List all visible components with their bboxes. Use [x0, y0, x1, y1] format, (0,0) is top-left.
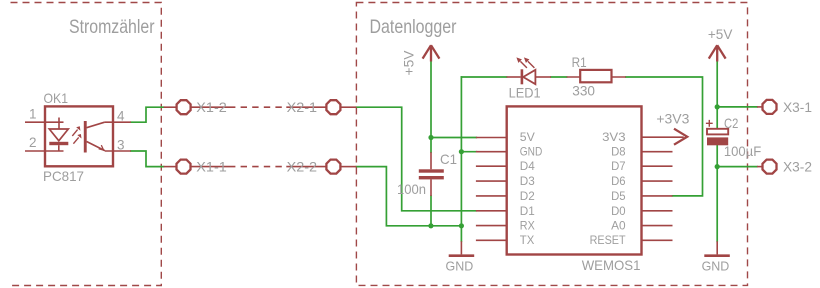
svg-text:R1: R1	[572, 54, 587, 70]
svg-text:100µF: 100µF	[724, 143, 761, 159]
svg-text:D2: D2	[520, 189, 535, 203]
svg-text:RESET: RESET	[590, 233, 626, 247]
svg-text:3: 3	[117, 138, 125, 153]
svg-text:1: 1	[29, 106, 37, 121]
svg-text:2: 2	[29, 135, 37, 150]
svg-text:D8: D8	[611, 145, 626, 159]
svg-text:Datenlogger: Datenlogger	[370, 16, 457, 38]
svg-text:C2: C2	[724, 115, 738, 131]
svg-text:LED1: LED1	[509, 85, 541, 101]
svg-text:Stromzähler: Stromzähler	[69, 16, 155, 38]
svg-text:5V: 5V	[520, 130, 536, 144]
svg-text:D7: D7	[611, 159, 626, 173]
svg-text:GND: GND	[520, 145, 543, 159]
svg-text:D4: D4	[520, 159, 535, 173]
svg-text:X3-2: X3-2	[783, 158, 812, 174]
svg-text:X3-1: X3-1	[783, 99, 812, 115]
svg-text:D1: D1	[520, 204, 535, 218]
svg-text:GND: GND	[446, 258, 474, 273]
svg-text:+5V: +5V	[402, 51, 417, 76]
svg-text:RX: RX	[520, 219, 535, 233]
svg-text:A0: A0	[611, 219, 626, 233]
svg-text:X2-1: X2-1	[287, 99, 318, 115]
svg-text:X1-1: X1-1	[196, 159, 227, 175]
svg-text:100n: 100n	[397, 181, 426, 197]
svg-text:D0: D0	[611, 204, 626, 218]
svg-text:X2-2: X2-2	[287, 159, 318, 175]
svg-text:OK1: OK1	[44, 90, 69, 106]
svg-text:X1-2: X1-2	[196, 99, 227, 115]
svg-text:+5V: +5V	[708, 27, 733, 42]
svg-text:D3: D3	[520, 174, 535, 188]
svg-text:+3V3: +3V3	[656, 111, 689, 126]
svg-text:WEMOS1: WEMOS1	[582, 257, 641, 273]
svg-text:PC817: PC817	[43, 168, 84, 184]
svg-text:3V3: 3V3	[602, 130, 626, 144]
svg-text:330: 330	[572, 83, 595, 99]
svg-text:D6: D6	[611, 174, 626, 188]
svg-text:4: 4	[117, 109, 125, 124]
svg-text:GND: GND	[702, 258, 730, 273]
svg-text:TX: TX	[520, 233, 535, 247]
svg-text:C1: C1	[440, 151, 457, 167]
svg-text:D5: D5	[611, 189, 626, 203]
